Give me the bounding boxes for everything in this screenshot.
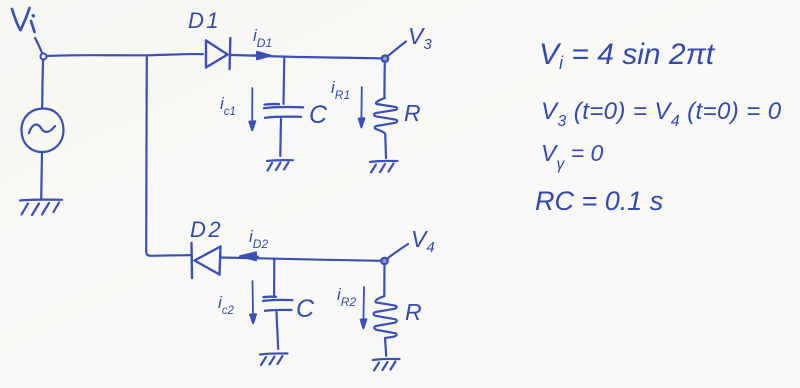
wire cap C2 top (273, 260, 275, 297)
svg-text:R: R (405, 299, 422, 325)
arrow iD1 (252, 52, 271, 60)
arrow iC2 (250, 281, 256, 324)
resistor R2 (383, 265, 385, 296)
diode D2 (192, 243, 221, 278)
label Vi (12, 8, 35, 32)
arrow iR1 (359, 87, 365, 128)
wire AC source top (41, 60, 44, 108)
ground C2 (260, 353, 288, 365)
wire D1 to node V3 (231, 55, 383, 58)
svg-text:D2: D2 (190, 217, 223, 242)
svg-text:R: R (404, 100, 421, 126)
wire cap C2 bottom (277, 312, 279, 349)
wire D2 to node V4 (221, 258, 383, 261)
ground source (20, 200, 62, 215)
arrow iC1 (249, 88, 255, 131)
ground R2 (373, 359, 400, 371)
svg-text:C: C (309, 101, 328, 129)
svg-text:D1: D1 (188, 8, 221, 33)
node V4 (381, 258, 387, 264)
svg-text:Vi = 4 sin 2πt: Vi = 4 sin 2πt (539, 38, 716, 73)
ground R1 (370, 161, 398, 173)
svg-text:RC = 0.1 s: RC = 0.1 s (535, 186, 663, 216)
wire branch vertical (145, 57, 148, 251)
wire node V4 tick (388, 244, 408, 258)
resistor R1 (383, 62, 386, 98)
node V3 (382, 55, 388, 61)
wire node V3 tick (389, 42, 407, 56)
capacitor C1 (264, 104, 303, 118)
arrow iD2 (240, 252, 258, 260)
ac source (21, 108, 63, 152)
wire Vi to node (35, 38, 42, 53)
capacitor C2 (263, 297, 293, 311)
wire cap C1 top (282, 57, 285, 104)
diode D1 (206, 38, 230, 69)
node Vi (41, 54, 47, 60)
ground C1 (267, 160, 293, 170)
wire cap C1 bottom (279, 119, 282, 156)
arrow iR2 (361, 287, 367, 329)
wire AC source bottom (40, 153, 43, 200)
svg-text:C: C (296, 295, 315, 323)
wire branch corner to D2 (146, 250, 191, 256)
wire top horizontal (47, 54, 203, 56)
